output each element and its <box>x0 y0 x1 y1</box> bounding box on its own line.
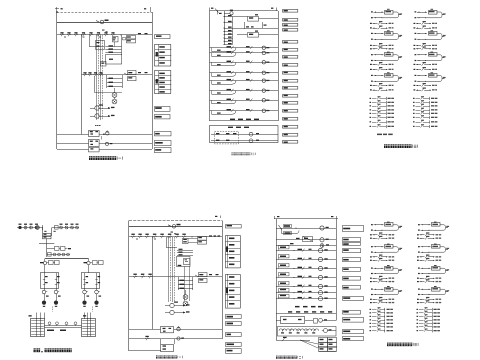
terminal row BR <box>417 319 419 320</box>
terminal row BR <box>370 319 372 320</box>
contact S8 <box>111 34 112 36</box>
branch bypass under rung K8 <box>211 111 213 114</box>
metering box pair <box>55 247 60 251</box>
node dots on rung L1 <box>80 34 83 37</box>
wiring label box M3 <box>283 24 298 27</box>
relay coil with wiring loop <box>415 11 417 12</box>
wire: rung L2 <box>82 74 153 76</box>
contact S2 <box>67 34 68 36</box>
bell BM HA <box>177 327 180 330</box>
aux contact row BR <box>417 256 419 257</box>
aux contact row BR <box>370 256 372 257</box>
control rung with coil K1 <box>210 47 279 49</box>
title: hydraulic pump schematic (3) <box>387 343 390 347</box>
meter BM PV <box>170 310 174 314</box>
note box N3 <box>155 115 171 119</box>
return wire BR <box>374 252 383 254</box>
contactor KM1 box <box>89 131 100 137</box>
wire extension mid <box>233 28 279 30</box>
branch bypass under rung K1 <box>211 48 213 51</box>
panel: hydraulic pump schematic border <box>274 218 338 220</box>
aux contact row BR <box>417 281 419 282</box>
aux contact row <box>370 45 372 46</box>
aux contact row BR <box>370 238 372 239</box>
wire: vertical drop A x81 <box>81 35 83 134</box>
contactor row BM 2 <box>129 338 222 340</box>
terminal row BR <box>370 309 372 310</box>
contact cluster BM CC1 (two boxes) <box>198 237 207 241</box>
terminal wire row <box>413 126 415 127</box>
corner tick TM top-left <box>209 8 211 12</box>
left rows BM <box>178 280 193 282</box>
hydraulic label box H3 <box>343 243 361 246</box>
return wire row <box>374 39 383 41</box>
contact S4 <box>82 34 83 36</box>
aux contact row <box>414 27 416 28</box>
relay block K1 box on bundle <box>96 41 105 50</box>
terminal wire row <box>413 121 415 122</box>
BM label group G1 <box>226 236 241 268</box>
wire from relay box to contact cluster <box>188 238 198 240</box>
corner tick top-right <box>150 7 152 12</box>
relay coil with loop BR <box>371 224 373 225</box>
relay coil with loop BR <box>371 268 373 269</box>
wire bundle: verticals x96-103 <box>96 35 98 120</box>
terminal row BR <box>370 312 372 313</box>
wiring label box M10 <box>283 80 298 83</box>
transformer T1 (two winding) <box>43 234 52 236</box>
hydraulic control rung 1 <box>276 250 336 252</box>
main rung BM L1 <box>129 236 222 238</box>
aux contact row <box>414 69 416 70</box>
micro label above meters <box>99 104 103 105</box>
wire row contactor KM2 <box>57 143 89 145</box>
hydraulic control rung 6 <box>276 292 336 294</box>
hydraulic coil 5 <box>318 284 322 288</box>
hydraulic coil 2 <box>318 257 322 261</box>
hydraulic label box H13 <box>343 337 364 341</box>
aux contact row <box>370 89 372 90</box>
aux contact row <box>414 48 416 49</box>
transformer box in section 2 <box>281 317 305 324</box>
coil circle K1 <box>262 46 265 49</box>
aux contact row <box>370 64 372 65</box>
bottom rung of hydraulic panel <box>276 340 310 342</box>
note box N6 <box>155 148 172 153</box>
corner tick top-left <box>55 8 59 10</box>
chain end lamp <box>324 329 328 333</box>
micro labels near wire bundle top <box>102 30 105 31</box>
hydraulic coil 6 <box>318 291 322 295</box>
terminal wire row <box>370 98 372 99</box>
pilot box on rung 5 <box>279 282 290 285</box>
wiring label box M12 <box>283 95 298 98</box>
relay coil with wiring loop <box>415 54 417 55</box>
aux block K1a small box <box>113 37 119 42</box>
aux contact row BR <box>417 238 419 239</box>
aux contact row BR <box>417 278 419 279</box>
BM note box N2 <box>226 315 242 319</box>
hydraulic label box H6 <box>343 268 361 272</box>
wiring label box M6 <box>283 49 298 52</box>
small pair lower-left of cluster <box>123 38 126 40</box>
coil circle K3 <box>262 61 265 64</box>
hydraulic label box H8 <box>343 286 361 290</box>
coil circle K5 <box>262 79 265 82</box>
pilot box on rung 2 <box>279 255 290 258</box>
coil circle K7 <box>262 99 265 102</box>
panel: hoist-pump control schematic sheet 2 border <box>210 10 279 12</box>
panel: drainage pump schematic border <box>129 220 222 222</box>
CT/insulator symbol right <box>76 226 79 229</box>
return wire row <box>374 17 383 19</box>
meter BM PA <box>170 303 174 307</box>
terminal row BR <box>370 323 372 324</box>
terminal wire row <box>413 102 415 103</box>
branch bypass under rung K5 <box>211 81 213 84</box>
feeder right wire down <box>88 265 90 273</box>
contactor BM KM2 box below <box>160 339 162 344</box>
terminal wire row <box>413 109 415 110</box>
wiring label box M11 <box>283 87 298 90</box>
left block verticals under rung L2 <box>94 76 96 92</box>
contact cluster CC1 under rung <box>127 36 136 39</box>
contact S7 <box>104 34 105 36</box>
hydraulic label box H2 <box>343 238 361 242</box>
vertical drop BM x152 <box>152 237 154 329</box>
note box N5 <box>155 141 172 146</box>
relay coil with wiring loop <box>371 33 373 34</box>
coil circle K4 <box>262 71 265 74</box>
rung with switch and coil 1 <box>276 228 336 230</box>
CT/insulator symbol right <box>60 226 63 229</box>
return wire row <box>417 39 426 41</box>
aux box below KM2 <box>89 148 100 152</box>
aux contact row BR <box>370 278 372 279</box>
aux contact row <box>370 27 372 28</box>
feeder right drop <box>88 259 90 262</box>
ladder rung r2 <box>224 22 233 24</box>
switch circle symbol BM <box>172 225 176 229</box>
section 2 top text row <box>288 311 292 312</box>
return wire BR <box>374 273 383 275</box>
terminal wire row <box>413 105 415 106</box>
contact cluster CC2 on L2 <box>128 71 137 75</box>
wire from K1a down <box>114 42 116 47</box>
bundle top ticks <box>95 125 97 126</box>
relay coil with loop BR <box>371 246 373 247</box>
return wire BR <box>421 252 430 254</box>
control rung with coil K6 <box>210 90 279 92</box>
coil circle K6 <box>262 89 265 92</box>
L-shaped branch wire left of bundle <box>89 35 91 47</box>
title: drainage pump schematic (1) <box>156 355 158 358</box>
breaker circles below cabinet <box>84 289 86 290</box>
terminal rows BM <box>177 250 193 252</box>
title: hydraulic pump schematic (2) <box>276 356 278 359</box>
left terminal rows block <box>107 78 122 80</box>
terminal row BR <box>370 330 372 331</box>
ladder rung r1 <box>224 16 233 18</box>
BM note box N4 <box>226 333 242 337</box>
CT/insulator symbol <box>35 226 38 229</box>
hydraulic label box H5 <box>343 258 361 262</box>
return wire row <box>374 81 383 83</box>
terminal row BR <box>417 312 419 313</box>
ladder rung r3 <box>224 28 233 30</box>
block box BM B1 <box>177 257 191 267</box>
BM label group G2 <box>226 275 241 309</box>
electrode stubs above left tank <box>36 313 38 320</box>
relay coil with wiring loop <box>371 75 373 76</box>
bus row with lamp <box>276 245 336 247</box>
hydraulic label box H9 <box>343 297 364 301</box>
rung BM L2 <box>129 276 222 278</box>
terminal wire row <box>370 109 372 110</box>
terminal wire row <box>370 105 372 106</box>
contact S3 <box>74 34 75 36</box>
aux panel text row <box>228 127 233 128</box>
aux contact row <box>414 85 416 86</box>
branch bypass under rung K7 <box>211 100 213 103</box>
relay coil with wiring loop <box>371 11 373 12</box>
vertical bundle BM <box>168 237 170 302</box>
title: hoist pump electric schematic (1) <box>89 156 92 160</box>
terminal wire row <box>370 117 372 118</box>
aux contact row <box>370 69 372 70</box>
wiring label box M13 <box>283 102 298 105</box>
wiring label box M1 <box>283 10 298 13</box>
control rung with coil K4 <box>210 72 279 74</box>
relay block box RB2 <box>248 33 259 38</box>
relay coil with loop BR <box>418 289 420 290</box>
bottom text row inside panel <box>230 119 235 121</box>
terminal wire row <box>370 126 372 127</box>
aux contact row BR <box>417 299 419 300</box>
pilot box on rung 4 <box>279 273 290 276</box>
BM note box N6 <box>226 349 242 354</box>
hydraulic label box H12 <box>343 330 364 334</box>
wiring label box M18 <box>283 141 298 144</box>
motor circles <box>42 301 46 305</box>
return wire row <box>417 17 426 19</box>
marks on rung right of cluster <box>138 33 141 34</box>
terminal row BR <box>417 323 419 324</box>
panel: hoist-pump control schematic sheet 1 border <box>57 12 152 14</box>
liquid rheostat tank left <box>31 319 45 337</box>
aux rung 1 with lamp <box>211 134 278 136</box>
terminal row BR <box>417 326 419 327</box>
CT/insulator symbol <box>30 226 33 229</box>
return wire BR <box>374 294 383 296</box>
terminal row BR <box>370 326 372 327</box>
transformer bottom bar <box>39 243 54 245</box>
title: pump main wiring diagram <box>34 348 37 352</box>
contactor BM KM1 box <box>161 327 174 333</box>
hydraulic control rung 4 <box>276 277 336 279</box>
label group G2 (5 rows) <box>155 71 171 94</box>
control rung with coil K5 <box>210 80 279 82</box>
control rung with coil K2 <box>210 52 279 54</box>
hydraulic label box H4 <box>343 249 361 253</box>
corner tick TM top-right <box>276 8 278 12</box>
text row above section break <box>295 306 300 308</box>
dashed link below motors <box>52 307 54 312</box>
coil circle K8 <box>262 109 265 112</box>
return wire row <box>417 60 426 62</box>
wiring label box M16 <box>283 126 298 129</box>
micro labels near BM bundle top <box>171 232 174 233</box>
hydraulic control rung 7 <box>276 298 336 300</box>
ladder rung r8 <box>224 44 233 46</box>
pilot box on rung 6 <box>279 289 290 292</box>
wire: drops to transformer <box>42 228 44 234</box>
feeder left breaker circle <box>43 261 46 264</box>
terminal row BR <box>370 316 372 317</box>
terminal row BR <box>417 330 419 331</box>
aux contact row BR <box>370 299 372 300</box>
branch bypass under rung K3 <box>211 62 213 65</box>
contactor row BM 1 <box>129 329 161 331</box>
contact S5 <box>89 34 90 36</box>
return wire BR <box>421 273 430 275</box>
branch under rung1 <box>282 233 297 235</box>
terminal wire row <box>370 113 372 114</box>
relay coil with loop BR <box>418 268 420 269</box>
ladder right rail segment <box>232 17 234 45</box>
contact S1 <box>60 34 61 36</box>
wire: main control rung L1 <box>57 34 152 36</box>
rectifier symbol <box>314 319 318 324</box>
terminal wire row <box>370 102 372 103</box>
motor circles <box>82 301 86 305</box>
control rung with coil K7 <box>210 100 279 102</box>
wire: transformer secondary down <box>46 243 48 257</box>
title: hoist pump electric schematic (2) <box>232 152 234 155</box>
pilot box on rung 7 <box>279 295 290 298</box>
relay coil with loop BR <box>371 289 373 290</box>
aux rung 2 with lamp <box>211 140 278 142</box>
first branch coil <box>230 10 233 11</box>
hydraulic label box H1 <box>343 226 364 232</box>
hydraulic coil 3 <box>318 266 322 270</box>
aux contact row <box>414 45 416 46</box>
feeder verticals inside cabinet <box>84 273 86 289</box>
mark below block <box>178 265 182 266</box>
dark instrument symbol <box>36 226 39 229</box>
aux contact row <box>370 85 372 86</box>
wiring label box M2 <box>283 19 298 22</box>
incoming line right group <box>52 227 79 229</box>
hydraulic coil 7 <box>318 297 322 301</box>
hydraulic coil 1 <box>318 248 322 252</box>
contactor KM2 box <box>89 140 100 147</box>
meter symbol PV with pointer <box>95 114 99 118</box>
left border extension BM <box>128 339 130 351</box>
corner ticks BMR <box>274 216 276 219</box>
aux contact row <box>370 23 372 24</box>
ladder rung r6 <box>224 38 233 40</box>
micro labels below BM rung <box>136 239 138 240</box>
incoming line with switch <box>129 226 222 228</box>
aux contact row BR <box>370 234 372 235</box>
indicator circle HL3 <box>105 142 108 145</box>
contact cluster BM CC2 <box>199 273 208 277</box>
return wire BR <box>374 230 383 232</box>
liquid rheostat tank right <box>82 319 96 337</box>
aux contact row BR <box>417 260 419 261</box>
section 3 resistor chain enclosure <box>278 327 337 337</box>
hydraulic control rung 2 <box>276 259 336 261</box>
aux contact row BR <box>370 260 372 261</box>
hydraulic control rung 5 <box>276 286 336 288</box>
disconnect switch at panel top <box>215 9 219 13</box>
aux contact row <box>414 89 416 90</box>
aux contact row BR <box>417 234 419 235</box>
tap branch to metering <box>47 248 55 250</box>
aux contact row <box>370 48 372 49</box>
block box B1 <box>106 55 122 65</box>
ladder rung r4 <box>224 31 233 33</box>
marks on rung right of cluster <box>209 235 212 236</box>
incoming supply line with switch QS <box>57 22 152 24</box>
hydraulic control rung 3 <box>276 268 336 270</box>
return wire BR <box>421 294 430 296</box>
indicator lamp HL1 <box>112 93 117 98</box>
incoming line left group <box>17 227 43 229</box>
feeder right breaker circle <box>87 261 90 264</box>
BM note box N3 <box>226 322 242 326</box>
contacts on BM L1 <box>131 236 132 238</box>
title: hoist pump electric schematic (3) <box>384 144 387 148</box>
relay coil with loop BR <box>418 246 420 247</box>
relay coil with loop BR <box>418 224 420 225</box>
wiring label box M15 <box>283 118 298 121</box>
meter symbol PA with pointer <box>95 106 99 110</box>
CT/insulator symbol <box>24 226 27 229</box>
link line between tanks <box>45 325 82 327</box>
terminal wire row <box>413 113 415 114</box>
small box pair above rung L2 <box>101 62 107 67</box>
incoming terminal filled circle <box>18 226 21 229</box>
wiring label box M9 <box>283 72 298 75</box>
branch wires upper-right area <box>244 22 246 29</box>
hydraulic coil 4 <box>318 275 322 279</box>
corner tick BM <box>220 216 222 219</box>
relay box on BM rung <box>183 239 189 244</box>
wiring label box M14 <box>283 110 298 113</box>
wire row contactor KM1 <box>57 134 89 136</box>
starter cabinet left <box>41 273 59 289</box>
switch QS circle symbol <box>100 20 104 24</box>
link wire between contactor rows <box>101 136 103 140</box>
bus bar <box>45 258 89 260</box>
note box N2 <box>155 107 171 112</box>
relay coil with wiring loop <box>371 54 373 55</box>
ladder rung r7 <box>224 41 233 43</box>
return wire BR <box>421 230 430 232</box>
aux contact row <box>414 64 416 65</box>
wiring label box M8 <box>283 64 298 67</box>
junction tick <box>42 225 44 230</box>
label group G1 (4 rows) <box>155 45 171 67</box>
wire stubs to lamps <box>114 88 116 93</box>
indicator circle BM <box>177 337 180 340</box>
resistor chain with taps <box>279 329 319 331</box>
branch bypass under rung K2 <box>211 53 213 56</box>
feeder right relay boxes <box>93 261 98 265</box>
micro labels below rung L1 <box>64 37 66 38</box>
